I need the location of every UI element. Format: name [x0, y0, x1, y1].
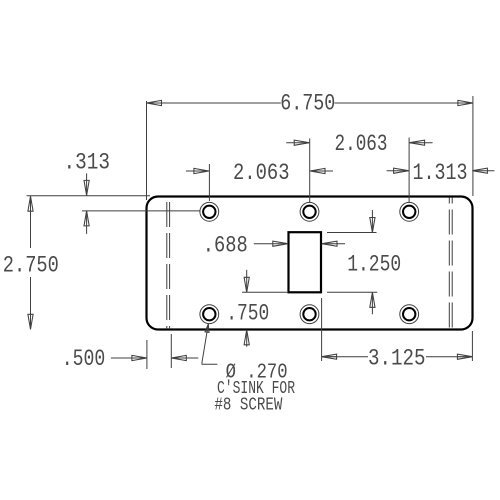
svg-text:6.750: 6.750	[280, 91, 335, 117]
svg-text:2.063: 2.063	[233, 160, 290, 186]
svg-text:.500: .500	[62, 346, 106, 372]
svg-text:2.750: 2.750	[3, 253, 59, 279]
svg-text:.688: .688	[203, 233, 248, 259]
svg-text:3.125: 3.125	[368, 346, 426, 372]
svg-text:.750: .750	[226, 301, 269, 327]
svg-text:2.063: 2.063	[335, 131, 388, 157]
svg-text:.313: .313	[64, 150, 111, 176]
svg-text:#8 SCREW: #8 SCREW	[214, 396, 282, 416]
svg-text:1.313: 1.313	[413, 160, 468, 186]
svg-text:1.250: 1.250	[347, 252, 401, 278]
